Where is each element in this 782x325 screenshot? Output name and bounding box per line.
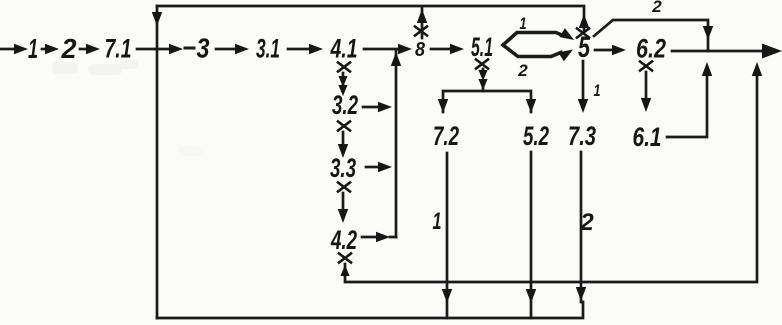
svg-text:8: 8 — [415, 39, 426, 61]
wire 3 to 3.1 — [216, 48, 235, 51]
svg-text:5.1: 5.1 — [471, 32, 493, 62]
wire 8 riser to top line — [421, 8, 424, 38]
svg-text:7.3: 7.3 — [568, 121, 596, 151]
svg-text:7.2: 7.2 — [433, 121, 459, 151]
wire 7.3 down to bottom line — [580, 152, 583, 302]
svg-text:4.2: 4.2 — [330, 225, 357, 255]
svg-text:3.1: 3.1 — [256, 34, 280, 64]
svg-text:2: 2 — [651, 0, 662, 16]
wire 5 down to 7.3 — [582, 61, 585, 100]
loop hexagon branch 2 — [503, 45, 561, 57]
wire input arrow — [1, 48, 16, 51]
wire 4.2 to collector — [362, 236, 396, 239]
check mark below 6.2 — [640, 62, 652, 71]
svg-text:1: 1 — [433, 208, 442, 235]
wire 8 to 5.1 — [431, 48, 450, 51]
check mark below 3.3 — [338, 183, 350, 192]
check mark below 4.1 — [338, 63, 350, 72]
svg-text:1: 1 — [594, 81, 601, 100]
wire bypass curve from 5 labelled 2 — [594, 20, 708, 51]
check mark above 8 — [415, 27, 427, 36]
wire collector vertical to 8 junction — [395, 51, 398, 237]
wire 3.1 to 4.1 — [288, 48, 309, 51]
check mark below 3.2 — [338, 122, 350, 131]
svg-text:2: 2 — [61, 33, 77, 64]
wire 7.2 down to bottom line — [446, 153, 449, 318]
check mark above 5 — [577, 29, 589, 38]
svg-text:4.1: 4.1 — [330, 34, 358, 64]
wire 2 to 7.1 — [80, 48, 87, 51]
wire left feedback vertical — [156, 6, 159, 318]
wire split bar to 7.2 and 5.2 — [443, 91, 531, 112]
wire 4.1 to 8 (collector joins) — [364, 48, 398, 51]
svg-text:7.1: 7.1 — [105, 34, 132, 64]
wire 6.1 up to output line — [667, 69, 707, 137]
svg-text:3: 3 — [197, 33, 210, 64]
wire 5 to 6.2 — [595, 49, 612, 52]
wire 6.2 down to 6.1 — [645, 72, 648, 100]
wire 5 riser to top line — [583, 7, 586, 30]
wire 1 to 2 — [42, 48, 47, 51]
svg-text:6.1: 6.1 — [633, 122, 662, 152]
check mark below 4.2 — [339, 254, 351, 263]
wire 5.2 down to bottom line — [530, 152, 533, 318]
svg-text:2: 2 — [579, 209, 594, 236]
svg-text:3.3: 3.3 — [330, 153, 356, 183]
svg-text:3.2: 3.2 — [332, 90, 358, 120]
wire 5.1 down to split (double arrow) — [482, 69, 485, 76]
wire 4.1 down to 3.2 (double arrow) — [342, 73, 345, 84]
wire 3.2 down to 3.3 — [342, 132, 345, 146]
loop hexagon between 5.1 and 5, branch 1 — [503, 33, 564, 46]
wire 3.2 to collector — [363, 106, 379, 109]
wire bottom feedback line — [157, 302, 583, 318]
dash before 3 — [185, 47, 194, 50]
wire 3.3 down to 4.2 — [342, 193, 345, 211]
wire 3.3 to collector — [366, 166, 379, 169]
wire 4.2 reject line to output — [345, 69, 757, 282]
svg-text:5.2: 5.2 — [523, 121, 549, 151]
wire output line with junctions — [672, 50, 764, 53]
wire top feedback line — [157, 5, 584, 8]
check mark below 5.1 — [476, 60, 488, 69]
svg-text:1: 1 — [520, 14, 527, 33]
svg-text:1: 1 — [28, 33, 38, 64]
svg-text:6.2: 6.2 — [636, 34, 666, 64]
svg-text:2: 2 — [517, 61, 528, 80]
faint scan smudges — [52, 60, 204, 156]
wire 7.1 to 3 (crosses feedback vertical) — [137, 48, 169, 51]
